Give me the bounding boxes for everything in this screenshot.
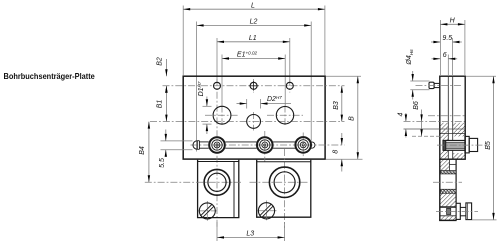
plate outline front view — [183, 76, 325, 159]
center line D1 bushing side view — [428, 115, 465, 117]
center line lower clamp screw axis — [436, 211, 478, 213]
section hatch carrier bottom — [441, 216, 456, 220]
clamp bar left cap — [193, 141, 197, 150]
center line dowel hole row — [163, 85, 345, 87]
dimension B6 — [421, 110, 423, 122]
extension line bar left end (L2) — [196, 22, 198, 152]
lower clamp screw bore side view — [441, 206, 457, 208]
extension line right bushing hole (E1) — [284, 55, 286, 107]
side view carrier right edge lower — [455, 219, 457, 220]
svg-text:B1: B1 — [156, 100, 163, 109]
center line right bushing hole D1 — [267, 114, 303, 116]
dowel pin shaft — [434, 83, 440, 87]
dowel pin O4 H6 head — [429, 82, 434, 88]
extension line right bushing axis (L3) — [284, 222, 286, 241]
dimension L3 — [217, 236, 285, 238]
svg-text:9.5: 9.5 — [442, 35, 452, 42]
left carrier block top edge — [198, 161, 239, 163]
dowel hole right (O4 H6) — [286, 82, 293, 89]
dimension B2 — [165, 59, 167, 76]
center line middle dowel hole axis — [253, 79, 255, 93]
right carrier block outline — [257, 160, 311, 217]
dimension D2 H7 — [246, 99, 248, 109]
svg-text:B: B — [349, 116, 356, 121]
bushing hole D1 left — [213, 106, 231, 124]
extension line side view bottom (B5) — [472, 219, 497, 221]
clamp bar right end cap — [310, 142, 312, 148]
dimension B — [357, 76, 359, 159]
section hatch right column upper — [453, 123, 465, 137]
dowel hole left (O4 H6) — [214, 82, 221, 89]
center line carrier bushing bore side view — [433, 181, 462, 183]
knurl band lower (bushing thread) — [441, 189, 456, 193]
svg-text:B5: B5 — [485, 141, 492, 150]
center line right dowel hole axis — [289, 79, 291, 93]
section hatch carrier upper — [441, 159, 450, 171]
drill bushing left carrier — [204, 169, 230, 195]
drill bushing right carrier — [269, 167, 299, 197]
svg-text:L3: L3 — [246, 231, 254, 238]
extension line right dowel hole (L1) — [289, 38, 291, 82]
extension line side view top (B5) — [466, 75, 496, 77]
center line dowel pin axis — [416, 84, 462, 86]
dimension B1 — [165, 86, 167, 122]
bushing hole D1 right — [276, 107, 293, 124]
svg-text:B4: B4 — [139, 146, 146, 155]
svg-text:B6: B6 — [413, 101, 420, 110]
clamp nut side view — [469, 138, 477, 151]
side view carrier left edge — [439, 159, 441, 220]
clamp screw flange — [465, 136, 469, 153]
dashed line side view — [412, 135, 440, 137]
section hatch carrier middle — [441, 193, 456, 206]
section hatch left column upper — [441, 123, 449, 140]
dimension O4 H6 ticks — [410, 80, 429, 82]
svg-text:B2: B2 — [156, 57, 163, 66]
hole D2 middle — [247, 115, 261, 129]
side view inner edge 6mm — [447, 76, 449, 140]
knurled clamp nut left — [209, 137, 225, 153]
left carrier block outline — [198, 160, 239, 218]
center line right clamp screw — [266, 201, 268, 222]
side view plate section outline — [440, 76, 465, 159]
svg-text:L2: L2 — [250, 19, 258, 26]
lower clamp screw shaft side view — [460, 206, 466, 208]
dimension L — [183, 8, 325, 10]
dimension 9.5 — [431, 41, 440, 43]
dimension 4 — [405, 113, 407, 121]
knurled clamp nut middle — [257, 137, 273, 153]
side view extension lines H / 9.5 / 6 — [439, 20, 441, 75]
extension line plate left edge (L) — [182, 6, 184, 76]
center line right carrier bushing — [250, 181, 308, 183]
center line middle hole D2 row — [150, 120, 345, 122]
lower clamp nut side view — [466, 203, 472, 220]
dimension B4 — [148, 122, 150, 183]
svg-text:6: 6 — [443, 52, 447, 59]
side view inner edge 9.5mm — [452, 76, 454, 140]
clamp bar segment 3 — [273, 141, 296, 143]
svg-text:L: L — [251, 2, 255, 9]
center line left clamp screw — [206, 201, 208, 221]
dimension H — [440, 23, 465, 25]
side view carrier bottom edge — [439, 219, 457, 221]
knurl band upper (bushing thread) — [441, 171, 456, 174]
dimension B3 — [341, 86, 343, 122]
clamp screw shaft side view — [443, 139, 465, 141]
svg-text:4: 4 — [398, 112, 405, 116]
clamp screw thread shading — [443, 142, 465, 149]
center line left carrier bushing — [145, 181, 241, 183]
knurled clamp nut right — [295, 137, 311, 153]
center line left column axis — [216, 79, 218, 228]
clamp bar segment 2 — [225, 141, 256, 143]
dimension B5 — [493, 76, 495, 220]
svg-text:5.5: 5.5 — [159, 158, 166, 168]
center line clamp bar row — [191, 144, 345, 146]
left carrier block clamp slit — [233, 162, 235, 218]
svg-text:8: 8 — [332, 150, 339, 154]
svg-text:B3: B3 — [333, 101, 340, 110]
dimension 5.5 extension lines — [161, 140, 193, 142]
dimension E1 — [222, 58, 285, 60]
dimension 5.5 — [165, 130, 167, 141]
clamp bar segment 1 — [199, 141, 208, 143]
clamp screw inner end — [443, 140, 446, 150]
center line D2 side view — [404, 120, 465, 122]
center line right clamp nut axis — [302, 133, 304, 158]
side view carrier right edge upper — [455, 159, 457, 203]
extension line left bushing axis (L3) — [216, 222, 218, 241]
dimension L1 — [217, 41, 290, 43]
center line left bushing hole D1 — [205, 114, 239, 116]
dimension 6 — [432, 58, 441, 60]
section hatch left column lower — [441, 151, 449, 160]
extension line plate bottom right — [326, 158, 363, 160]
dowel hole middle (O4 H6) — [250, 82, 257, 89]
extension line left bushing hole (E1) — [221, 55, 223, 107]
extension line bar right end (L2) — [310, 22, 312, 141]
clamp screw left (slotted) — [199, 203, 215, 219]
center line right bushing hole axis — [284, 106, 286, 126]
side view carrier inner step — [448, 159, 450, 170]
edge line clamp step side view — [404, 128, 466, 130]
lower clamp screw flange side view — [456, 203, 460, 219]
lower clamp screw slot section — [447, 208, 451, 214]
dimension O4 H6 — [412, 71, 414, 81]
dimension 8 — [341, 133, 343, 145]
center line middle hole D2 axis — [253, 112, 255, 131]
section step line — [441, 132, 466, 134]
dimension L2 — [197, 24, 312, 26]
extension line plate right edge (L) — [324, 6, 326, 76]
center line right carrier bushing axis — [284, 149, 286, 228]
extension line plate top right — [326, 75, 361, 77]
section hatch right column lower — [453, 153, 465, 159]
clamp screw right (slotted) — [258, 203, 274, 219]
center line clamp screw axis side view — [437, 144, 488, 146]
extension line left dowel hole (L1) — [216, 38, 218, 82]
center line middle clamp nut axis — [264, 131, 266, 162]
center line left bushing hole axis — [221, 106, 223, 126]
dimension D1 H7 — [203, 105, 212, 107]
svg-text:L1: L1 — [249, 35, 257, 42]
right carrier block top edge — [257, 161, 311, 163]
svg-text:Bohrbuchsenträger-Platte: Bohrbuchsenträger-Platte — [4, 72, 96, 82]
